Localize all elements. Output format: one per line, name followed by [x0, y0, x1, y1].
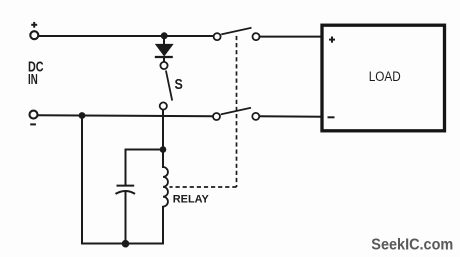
svg-text:RELAY: RELAY	[173, 194, 210, 206]
svg-text:LOAD: LOAD	[369, 69, 401, 84]
svg-text:IN: IN	[28, 71, 38, 88]
svg-text:SeekIC.com: SeekIC.com	[371, 237, 453, 254]
svg-text:S: S	[175, 77, 184, 93]
